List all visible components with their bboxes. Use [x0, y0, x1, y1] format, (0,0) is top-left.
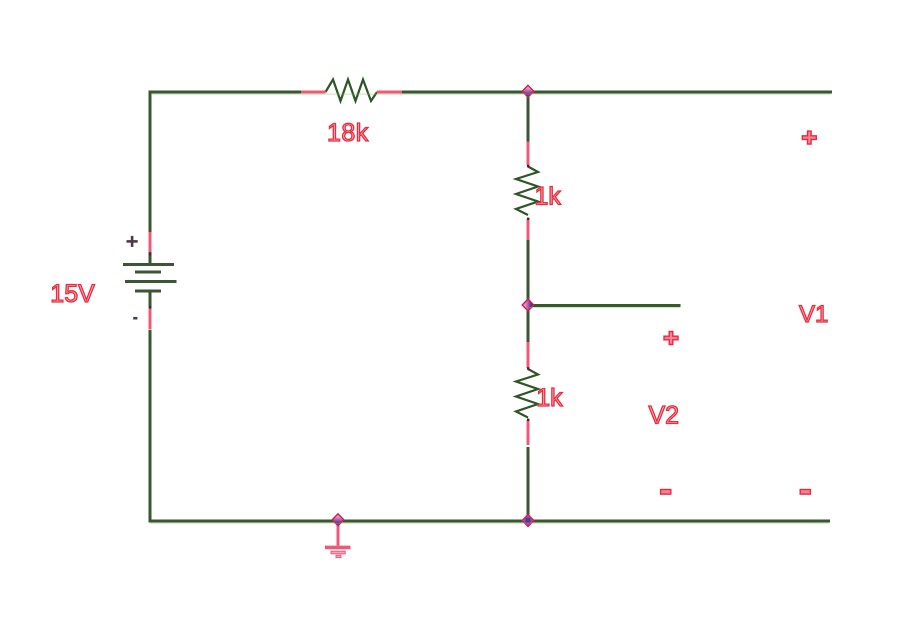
svg-text:V2: V2	[649, 402, 680, 430]
svg-text:1k: 1k	[535, 182, 562, 210]
svg-text:15V: 15V	[50, 280, 95, 308]
svg-text:18k: 18k	[327, 119, 369, 147]
svg-text:V1: V1	[799, 301, 828, 328]
svg-text:1k: 1k	[536, 384, 563, 412]
